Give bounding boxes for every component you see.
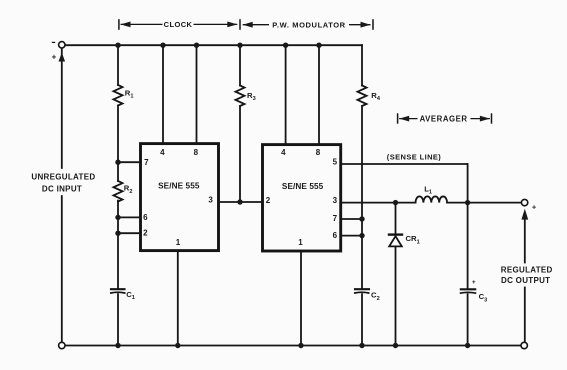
svg-text:4: 4 bbox=[281, 148, 286, 157]
svg-text:DC INPUT: DC INPUT bbox=[42, 185, 82, 194]
wire pin7 stub chip2 bbox=[341, 218, 362, 220]
wire sense line vertical bbox=[467, 164, 469, 203]
junction dot top rail R1 bbox=[115, 43, 120, 48]
wire pin1 drop chip2 bbox=[300, 251, 302, 346]
svg-text:+: + bbox=[532, 203, 537, 212]
svg-text:P.W. MODULATOR: P.W. MODULATOR bbox=[272, 20, 345, 29]
wire C1 to bottom rail bbox=[117, 294, 119, 345]
wire pin4 drop chip1 bbox=[162, 45, 164, 143]
svg-text:3: 3 bbox=[333, 196, 338, 205]
svg-text:SE/NE 555: SE/NE 555 bbox=[282, 182, 324, 191]
wire pin6 stub chip1 bbox=[118, 216, 141, 218]
svg-text:(SENSE LINE): (SENSE LINE) bbox=[387, 153, 441, 162]
junction dot bottom rail pin1 chip1 bbox=[175, 343, 180, 348]
junction dot CR1 node bbox=[393, 200, 398, 205]
label CLOCK bbox=[163, 19, 194, 30]
junction dot pin6 chip2 bbox=[359, 233, 364, 238]
junction dot bottom rail pin1 chip2 bbox=[298, 343, 303, 348]
wire pin5 sense line horizontal bbox=[341, 163, 468, 165]
wire R1-R2-C1 branch upper bbox=[117, 45, 119, 85]
junction dot bottom rail C1 bbox=[115, 343, 120, 348]
svg-text:R3: R3 bbox=[247, 91, 256, 102]
junction dot top rail R3 bbox=[237, 43, 242, 48]
wire between R2 and C1 bbox=[117, 201, 119, 288]
arrowhead pw right bbox=[361, 22, 371, 28]
wire R4 down to C2 bbox=[361, 106, 363, 288]
junction dot top rail pin8 chip2 bbox=[316, 43, 321, 48]
junction dot bottom rail C2 bbox=[359, 343, 364, 348]
svg-text:7: 7 bbox=[333, 214, 338, 223]
dimension pw line bbox=[243, 24, 371, 26]
wire pin1 drop chip1 bbox=[177, 251, 179, 346]
svg-text:2: 2 bbox=[266, 196, 271, 205]
label P.W. MODULATOR bbox=[269, 19, 349, 30]
dimension averager bar right bbox=[491, 113, 493, 123]
wire bottom rail bbox=[65, 345, 521, 347]
svg-text:5: 5 bbox=[333, 158, 338, 167]
junction dot pin6 chip1 bbox=[115, 215, 120, 220]
dimension pw bar right bbox=[372, 19, 374, 30]
svg-text:4: 4 bbox=[160, 148, 165, 157]
junction dot L1 C3 sense node bbox=[465, 200, 470, 205]
svg-text:C1: C1 bbox=[126, 290, 135, 301]
svg-text:SE/NE 555: SE/NE 555 bbox=[158, 181, 200, 190]
svg-text:3: 3 bbox=[208, 196, 213, 205]
wire L1 to output terminal bbox=[447, 202, 521, 204]
resistor R2 bbox=[114, 181, 123, 202]
dimension averager line bbox=[399, 118, 490, 120]
svg-text:6: 6 bbox=[333, 231, 338, 240]
arrowhead averager right bbox=[480, 116, 490, 122]
junction dot pin7 chip2 bbox=[359, 216, 364, 221]
dimension clock/pw shared bar bbox=[239, 19, 241, 30]
svg-text:2: 2 bbox=[143, 229, 148, 238]
svg-text:CR1: CR1 bbox=[406, 234, 420, 245]
svg-text:1: 1 bbox=[298, 238, 303, 247]
capacitor C1 bbox=[111, 288, 125, 290]
svg-text:6: 6 bbox=[143, 213, 148, 222]
svg-text:UNREGULATED: UNREGULATED bbox=[31, 173, 95, 182]
diode CR1 cathode bar bbox=[389, 233, 402, 235]
diode CR1 triangle bbox=[389, 236, 402, 246]
svg-text:8: 8 bbox=[316, 148, 321, 157]
svg-text:R1: R1 bbox=[125, 88, 134, 99]
resistor R4 bbox=[358, 86, 367, 106]
svg-text:C2: C2 bbox=[371, 291, 380, 302]
svg-text:7: 7 bbox=[144, 158, 149, 167]
terminal input top bbox=[59, 42, 65, 48]
op-amp U2 SE/NE 555 box bbox=[263, 145, 341, 251]
dimension averager bar left bbox=[397, 113, 399, 123]
svg-text:C3: C3 bbox=[479, 292, 488, 303]
wire pin2 stub chip1 bbox=[118, 232, 141, 234]
wire R3 to pin3 line bbox=[239, 106, 241, 202]
resistor R1 bbox=[114, 85, 123, 105]
arrowhead pw left bbox=[243, 22, 253, 28]
wire pin8 drop chip1 bbox=[196, 45, 198, 143]
wire CR1 lower lead bbox=[395, 246, 397, 345]
svg-text:CLOCK: CLOCK bbox=[164, 20, 193, 29]
wire pin4 drop chip2 bbox=[285, 45, 287, 144]
junction dot pin7 chip1 bbox=[115, 160, 120, 165]
svg-text:AVERAGER: AVERAGER bbox=[420, 114, 468, 123]
svg-text:+: + bbox=[472, 279, 476, 286]
wire R4 branch upper with corner bbox=[361, 45, 363, 85]
wire output arrow segment bbox=[524, 219, 526, 263]
wire C2 to bottom rail bbox=[361, 294, 363, 345]
junction dot pin2 chip1 bbox=[115, 231, 120, 236]
arrowhead output up arrow bbox=[521, 209, 528, 220]
arrowhead clock left bbox=[121, 22, 131, 28]
op-amp U1 SE/NE 555 box bbox=[141, 144, 219, 251]
inductor L1 bbox=[416, 196, 448, 202]
wire below output text to bottom terminal bbox=[524, 288, 526, 343]
arrowhead clock right bbox=[227, 22, 237, 28]
resistor R3 bbox=[236, 86, 245, 106]
label AVERAGER bbox=[418, 113, 471, 124]
terminal output bottom bbox=[521, 342, 527, 348]
svg-text:8: 8 bbox=[194, 148, 199, 157]
wire CR1 upper lead bbox=[395, 203, 397, 234]
capacitor C3 bbox=[461, 288, 475, 290]
wire pin3 chip2 to L1 bbox=[341, 202, 416, 204]
wire between R1 and R2 bbox=[117, 106, 119, 181]
capacitor C2 bbox=[355, 288, 369, 290]
wire pin8 drop chip2 bbox=[318, 45, 320, 144]
svg-text:R2: R2 bbox=[124, 184, 133, 195]
wire pin7 stub chip1 bbox=[118, 161, 141, 163]
dimension clock line bbox=[121, 23, 238, 25]
wire C3 to bottom rail bbox=[467, 294, 469, 345]
svg-text:+: + bbox=[52, 52, 57, 61]
wire top rail bbox=[65, 44, 362, 46]
junction dot R3 pin3 node bbox=[237, 199, 242, 204]
wire R3 branch upper bbox=[239, 45, 241, 85]
wire C3 upper lead bbox=[467, 203, 469, 289]
junction dot bottom rail CR1 bbox=[393, 343, 398, 348]
junction dot bottom rail C3 bbox=[465, 343, 470, 348]
label minus tick input bbox=[52, 41, 55, 43]
svg-text:REGULATED: REGULATED bbox=[501, 265, 553, 274]
junction dot top rail pin4 chip2 bbox=[283, 43, 288, 48]
terminal output top bbox=[521, 199, 527, 205]
svg-text:1: 1 bbox=[176, 238, 181, 247]
wire pin6 stub chip2 bbox=[341, 235, 362, 237]
arrowhead input up arrow bbox=[59, 53, 66, 62]
svg-text:L1: L1 bbox=[424, 184, 432, 195]
junction dot top rail pin4 chip1 bbox=[160, 43, 165, 48]
arrowhead averager left bbox=[399, 116, 409, 122]
junction dot top rail pin8 chip1 bbox=[194, 43, 199, 48]
svg-text:R4: R4 bbox=[371, 91, 381, 102]
wire left input vertical bbox=[61, 48, 63, 168]
dimension clock bar left bbox=[118, 19, 120, 30]
terminal input bottom bbox=[59, 342, 65, 348]
svg-text:DC OUTPUT: DC OUTPUT bbox=[501, 276, 550, 285]
wire pin3 chip1 to pin2 chip2 bbox=[219, 201, 263, 203]
